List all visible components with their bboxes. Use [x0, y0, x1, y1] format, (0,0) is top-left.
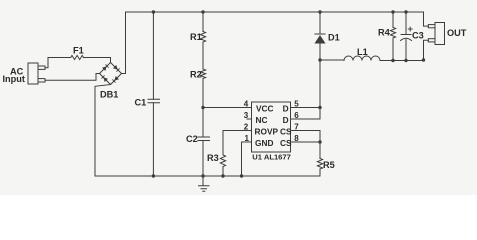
svg-text:C2: C2	[186, 134, 198, 144]
svg-text:4: 4	[244, 100, 249, 109]
svg-text:R1: R1	[190, 32, 202, 42]
svg-text:6: 6	[294, 111, 299, 120]
svg-text:ROVP: ROVP	[255, 127, 279, 137]
svg-text:L1: L1	[357, 47, 368, 57]
svg-text:1: 1	[245, 134, 250, 143]
svg-text:R5: R5	[323, 160, 335, 170]
svg-text:CS: CS	[280, 127, 292, 137]
svg-text:VCC: VCC	[256, 104, 274, 114]
svg-text:5: 5	[294, 100, 299, 109]
svg-text:7: 7	[294, 123, 299, 132]
svg-text:C1: C1	[135, 97, 147, 107]
svg-text:U1 AL1677: U1 AL1677	[252, 152, 291, 161]
svg-text:CS: CS	[280, 138, 292, 148]
svg-text:D1: D1	[328, 33, 340, 43]
svg-text:Input: Input	[3, 74, 25, 84]
svg-text:GND: GND	[255, 138, 273, 148]
svg-text:F1: F1	[73, 46, 84, 56]
svg-text:DB1: DB1	[100, 89, 118, 99]
svg-text:NC: NC	[256, 115, 268, 125]
svg-text:2: 2	[244, 123, 249, 132]
svg-text:R4: R4	[378, 28, 391, 38]
svg-text:R3: R3	[207, 153, 219, 163]
svg-text:R2: R2	[190, 69, 202, 79]
svg-text:C3: C3	[412, 31, 424, 41]
svg-text:OUT: OUT	[447, 28, 467, 38]
svg-text:D: D	[283, 115, 289, 125]
svg-text:3: 3	[244, 111, 249, 120]
svg-text:D: D	[283, 104, 289, 114]
svg-text:8: 8	[294, 134, 299, 143]
